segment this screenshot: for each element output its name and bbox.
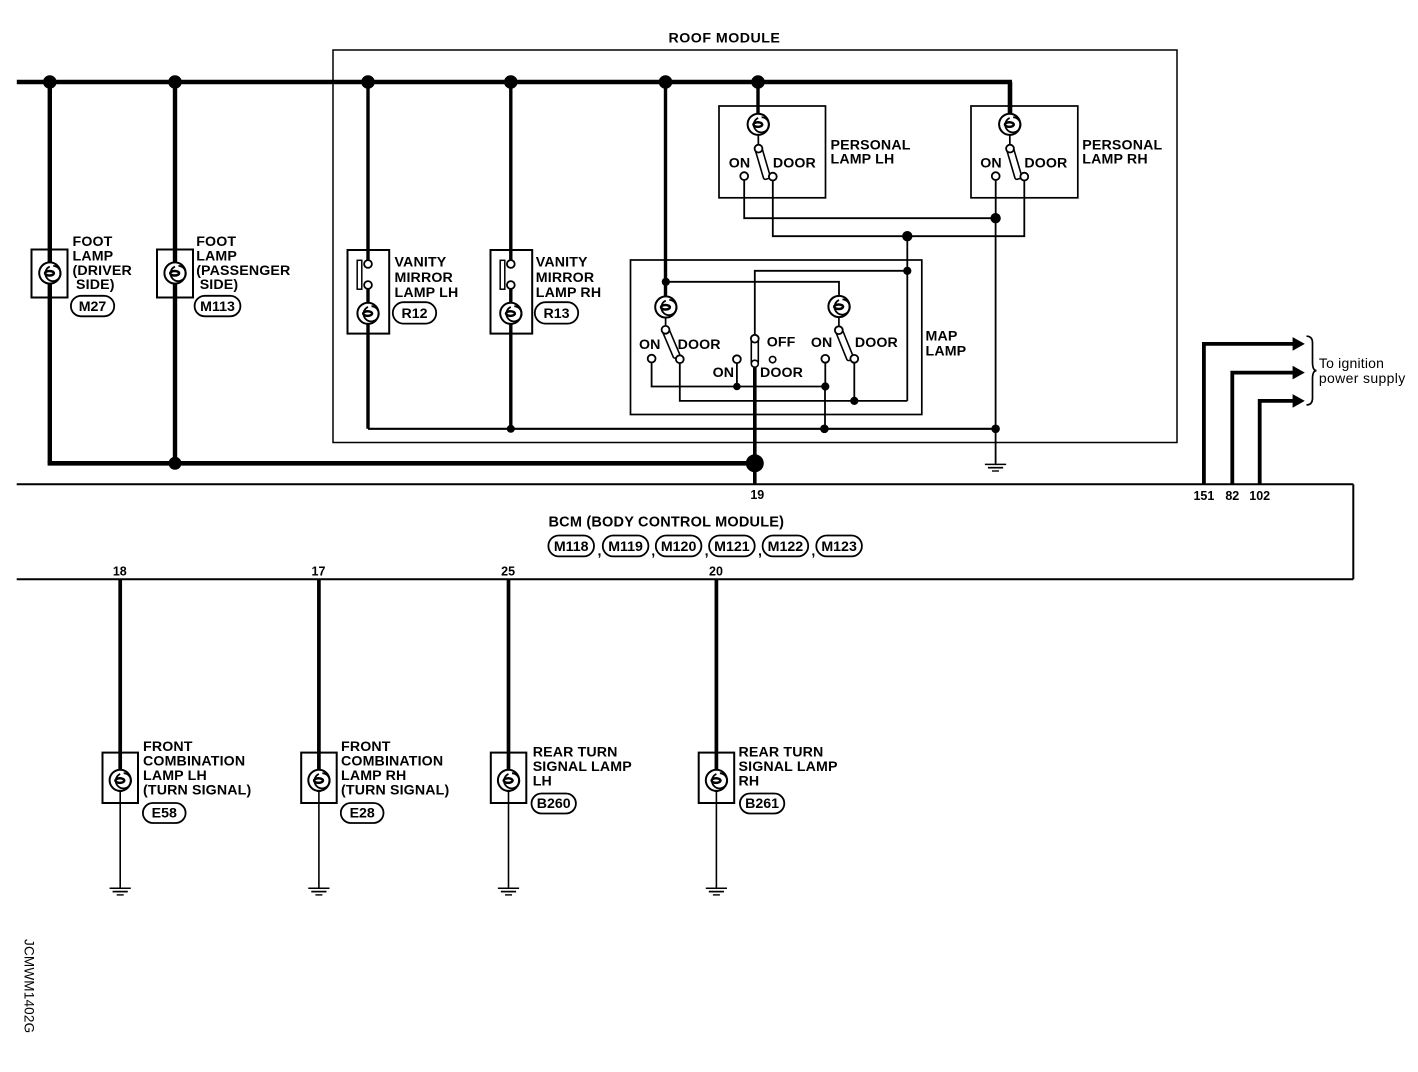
- svg-text:M27: M27: [79, 299, 107, 315]
- svg-text:,: ,: [758, 544, 762, 560]
- node junction return/M113: [169, 457, 182, 470]
- svg-text:VANITY: VANITY: [536, 255, 588, 271]
- wire personal LH ON to RH ON: [744, 180, 995, 218]
- lamp FOOT LAMP (PASSENGER SIDE) M113: [157, 234, 290, 298]
- svg-text:ON: ON: [713, 365, 734, 381]
- ground B261: [706, 888, 727, 895]
- svg-text:,: ,: [705, 544, 709, 560]
- svg-text:MIRROR: MIRROR: [395, 270, 453, 286]
- wire lamp E28 to ground: [318, 792, 320, 888]
- connector R12: [393, 302, 436, 323]
- lamp MAP LAMP box: [631, 260, 922, 415]
- svg-text:(TURN SIGNAL): (TURN SIGNAL): [143, 782, 251, 798]
- svg-text:DOOR: DOOR: [760, 365, 803, 381]
- BCM body control module band: [17, 484, 1354, 579]
- wire personal LH DOOR to RH DOOR: [773, 181, 1025, 237]
- node junction bus/M113: [168, 75, 182, 89]
- svg-text:ON: ON: [980, 155, 1001, 171]
- svg-text:LH: LH: [533, 774, 552, 790]
- roof module box: [333, 50, 1177, 443]
- ground E28: [308, 888, 329, 895]
- node junction bus/R13: [504, 75, 518, 89]
- svg-text:power supply: power supply: [1319, 370, 1406, 386]
- svg-text:M122: M122: [768, 539, 804, 555]
- svg-text:JCMWM1402G: JCMWM1402G: [22, 939, 37, 1033]
- svg-text:SIDE): SIDE): [200, 277, 239, 293]
- svg-text:ON: ON: [811, 335, 832, 351]
- svg-text:M121: M121: [714, 539, 750, 555]
- node junction map bulbs feed: [662, 278, 670, 286]
- svg-text:DOOR: DOOR: [773, 155, 816, 171]
- wire lamp B261 to ground: [715, 792, 717, 888]
- connector R13: [535, 302, 578, 323]
- lamp FRONT COMBINATION LAMP RH E28: [301, 739, 449, 803]
- svg-text:M120: M120: [661, 539, 697, 555]
- svg-text:DOOR: DOOR: [855, 335, 898, 351]
- wire BCM pin 25 drop: [507, 579, 511, 792]
- svg-text:M123: M123: [821, 539, 857, 555]
- node junction bus/M27: [43, 75, 57, 89]
- svg-text:R12: R12: [401, 306, 427, 322]
- wire map switch output to BCM pin 19: [753, 368, 757, 484]
- svg-text:(TURN SIGNAL): (TURN SIGNAL): [341, 782, 449, 798]
- svg-text:VANITY: VANITY: [395, 255, 447, 271]
- wire vanity return line: [368, 428, 996, 430]
- svg-text:M118: M118: [554, 539, 589, 555]
- wire map bulb feed: [666, 282, 839, 296]
- svg-text:DOOR: DOOR: [678, 337, 721, 353]
- pin 151: [1193, 337, 1304, 503]
- node junction map right DOOR: [850, 397, 858, 405]
- ground personal/map lamps: [985, 464, 1006, 471]
- wire BCM pin 20 drop: [715, 579, 719, 792]
- node junction DOOR wires: [902, 231, 912, 241]
- node junction vanity return/map ON: [820, 425, 829, 434]
- svg-text:,: ,: [811, 544, 815, 560]
- svg-text:DOOR: DOOR: [1024, 155, 1067, 171]
- wire map ON junction line: [652, 363, 826, 387]
- svg-text:E28: E28: [350, 806, 375, 822]
- ground E58: [110, 888, 131, 895]
- wire vanity mirror LH lower: [366, 285, 369, 429]
- switch map left: [639, 318, 721, 364]
- lamp PERSONAL LAMP RH: [971, 106, 1163, 198]
- svg-text:ON: ON: [639, 337, 660, 353]
- node junction ON wires: [990, 213, 1000, 223]
- svg-text:ROOF MODULE: ROOF MODULE: [669, 31, 781, 47]
- wire map DOOR junction line: [680, 363, 908, 401]
- wire map ON exit to vanity return: [824, 387, 826, 429]
- connector M122: [763, 536, 809, 557]
- svg-text:LAMP RH: LAMP RH: [1082, 152, 1147, 168]
- connector E28: [341, 803, 384, 823]
- wire vanity mirror LH drop: [366, 82, 369, 264]
- svg-text:B260: B260: [537, 796, 571, 812]
- switch map center 3-position: [713, 271, 908, 381]
- svg-text:,: ,: [651, 544, 655, 560]
- svg-text:19: 19: [750, 488, 764, 502]
- svg-text:MIRROR: MIRROR: [536, 270, 594, 286]
- connector M113: [195, 296, 241, 317]
- node junction map switch common: [903, 267, 911, 275]
- wire map lamp drop: [664, 82, 667, 297]
- node junction bus/R12: [361, 75, 375, 89]
- connector M27: [71, 296, 114, 317]
- switch map right: [811, 317, 898, 362]
- lamp FRONT COMBINATION LAMP LH E58: [103, 739, 252, 803]
- wire vanity mirror RH lower: [509, 285, 512, 429]
- node junction return/pin19: [746, 454, 764, 472]
- svg-text:18: 18: [113, 565, 127, 579]
- wire personal RH ON down: [995, 180, 997, 464]
- wire vanity mirror RH drop: [509, 82, 512, 264]
- node junction vanity return/R13: [507, 425, 515, 433]
- svg-text:20: 20: [709, 565, 723, 579]
- svg-text:102: 102: [1249, 489, 1270, 503]
- wire main power bus: [17, 80, 1012, 85]
- node junction bus/personal lamp LH: [751, 75, 765, 89]
- brace to ignition: [1307, 336, 1317, 405]
- wire BCM pin 17 drop: [317, 579, 321, 792]
- lamp REAR TURN SIGNAL LAMP RH B261: [699, 745, 838, 803]
- lamp PERSONAL LAMP LH: [719, 106, 911, 198]
- svg-text:LAMP LH: LAMP LH: [395, 285, 459, 301]
- lamp VANITY MIRROR LAMP LH R12: [348, 250, 459, 334]
- wire foot lamp M113 drop: [173, 82, 177, 463]
- connector M123: [816, 536, 862, 557]
- connector B260: [532, 794, 576, 814]
- wire foot lamp M27 drop: [48, 82, 52, 463]
- svg-text:OFF: OFF: [767, 335, 796, 351]
- lamp REAR TURN SIGNAL LAMP LH B260: [491, 745, 632, 803]
- wire personal lamp RH drop (bus end corner): [1008, 82, 1013, 124]
- ground B260: [498, 888, 519, 895]
- svg-text:RH: RH: [739, 774, 760, 790]
- wire ground return bus: [48, 461, 755, 466]
- wire BCM pin 18 drop: [118, 579, 122, 792]
- connector E58: [143, 803, 186, 823]
- node junction bus/map lamp: [659, 75, 673, 89]
- svg-text:R13: R13: [543, 306, 569, 322]
- svg-text:B261: B261: [745, 796, 779, 812]
- svg-text:SIDE): SIDE): [76, 277, 115, 293]
- lamp VANITY MIRROR LAMP RH R13: [491, 250, 602, 334]
- connector B261: [740, 794, 784, 814]
- bulb map lamp right: [828, 296, 849, 317]
- svg-text:LAMP LH: LAMP LH: [831, 152, 895, 168]
- node junction map right ON: [821, 382, 829, 390]
- pin 82: [1225, 366, 1304, 503]
- node junction vanity return/personal ON: [991, 425, 1000, 434]
- svg-text:M119: M119: [608, 539, 643, 555]
- wire lamp B260 to ground: [508, 792, 510, 888]
- connector M119: [603, 536, 649, 557]
- svg-text:,: ,: [598, 544, 602, 560]
- svg-text:LAMP RH: LAMP RH: [536, 285, 601, 301]
- connector M118: [548, 536, 594, 557]
- pin 102: [1249, 394, 1305, 503]
- svg-text:M113: M113: [200, 299, 235, 315]
- svg-text:E58: E58: [152, 806, 177, 822]
- svg-text:BCM (BODY CONTROL MODULE): BCM (BODY CONTROL MODULE): [549, 514, 785, 530]
- svg-text:ON: ON: [729, 155, 750, 171]
- node junction map center ON: [733, 383, 741, 391]
- wire DOOR junction down: [906, 236, 908, 401]
- svg-text:MAP: MAP: [926, 329, 958, 345]
- svg-text:17: 17: [312, 565, 326, 579]
- svg-text:To ignition: To ignition: [1319, 355, 1384, 371]
- lamp FOOT LAMP (DRIVER SIDE) M27: [32, 234, 132, 298]
- connector M121: [709, 536, 755, 557]
- svg-text:151: 151: [1193, 489, 1214, 503]
- svg-text:LAMP: LAMP: [926, 344, 967, 360]
- wire lamp E58 to ground: [119, 792, 121, 888]
- wire personal lamp LH drop: [756, 82, 759, 124]
- connector M120: [656, 536, 702, 557]
- svg-text:25: 25: [501, 565, 515, 579]
- svg-text:82: 82: [1225, 489, 1239, 503]
- bulb map lamp left: [655, 296, 676, 317]
